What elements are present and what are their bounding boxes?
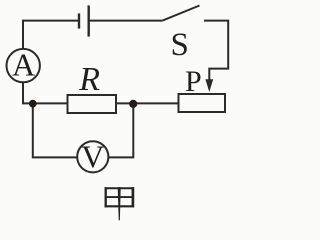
voltmeter branch wire loop <box>33 103 134 157</box>
caption glyph 甲 drawn as strokes <box>105 187 134 207</box>
rheostat P box <box>179 94 226 112</box>
wire switch contact to right corner <box>204 21 228 80</box>
svg-text:S: S <box>171 27 189 63</box>
caption glyph center vertical stroke <box>118 187 121 220</box>
battery cell long plate (positive) <box>87 5 89 36</box>
node junction dot left <box>29 100 37 108</box>
voltmeter V1 circle <box>77 141 108 172</box>
svg-text:A: A <box>12 47 35 83</box>
node junction dot right <box>129 100 137 108</box>
svg-text:R: R <box>78 61 100 98</box>
main horizontal wire <box>22 102 179 104</box>
wire battery to switch <box>89 20 163 22</box>
battery cell short plate (negative) <box>78 13 80 28</box>
rheostat slider arrowhead <box>205 79 213 92</box>
wire top-left horizontal to battery <box>22 20 79 22</box>
ammeter A1 circle <box>7 49 40 82</box>
switch S blade (open) <box>163 6 200 21</box>
resistor R box <box>68 95 117 113</box>
svg-text:V: V <box>81 138 104 174</box>
wire left vertical through ammeter position <box>22 21 24 104</box>
